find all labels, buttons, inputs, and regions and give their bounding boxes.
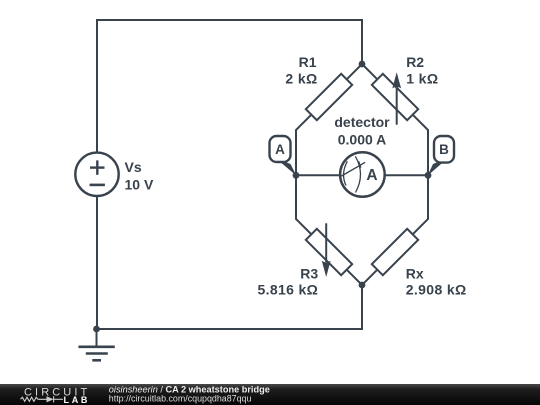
svg-text:1 kΩ: 1 kΩ [406,71,438,87]
svg-text:A: A [275,142,285,157]
svg-text:Rx: Rx [406,265,424,281]
svg-text:http://circuitlab.com/cqupqdha: http://circuitlab.com/cqupqdha87qqu [109,393,252,403]
svg-text:Vs: Vs [125,159,142,175]
svg-text:R2: R2 [406,54,424,70]
svg-text:B: B [439,142,449,157]
svg-text:10 V: 10 V [125,176,154,192]
svg-text:detector: detector [334,114,390,130]
svg-text:R1: R1 [299,54,317,70]
svg-text:0.000 A: 0.000 A [338,132,387,148]
svg-text:LAB: LAB [64,395,91,405]
svg-text:A: A [366,167,377,184]
svg-text:2 kΩ: 2 kΩ [285,71,317,87]
svg-text:2.908 kΩ: 2.908 kΩ [406,281,467,297]
svg-text:R3: R3 [300,265,318,281]
svg-text:5.816 kΩ: 5.816 kΩ [257,281,318,297]
